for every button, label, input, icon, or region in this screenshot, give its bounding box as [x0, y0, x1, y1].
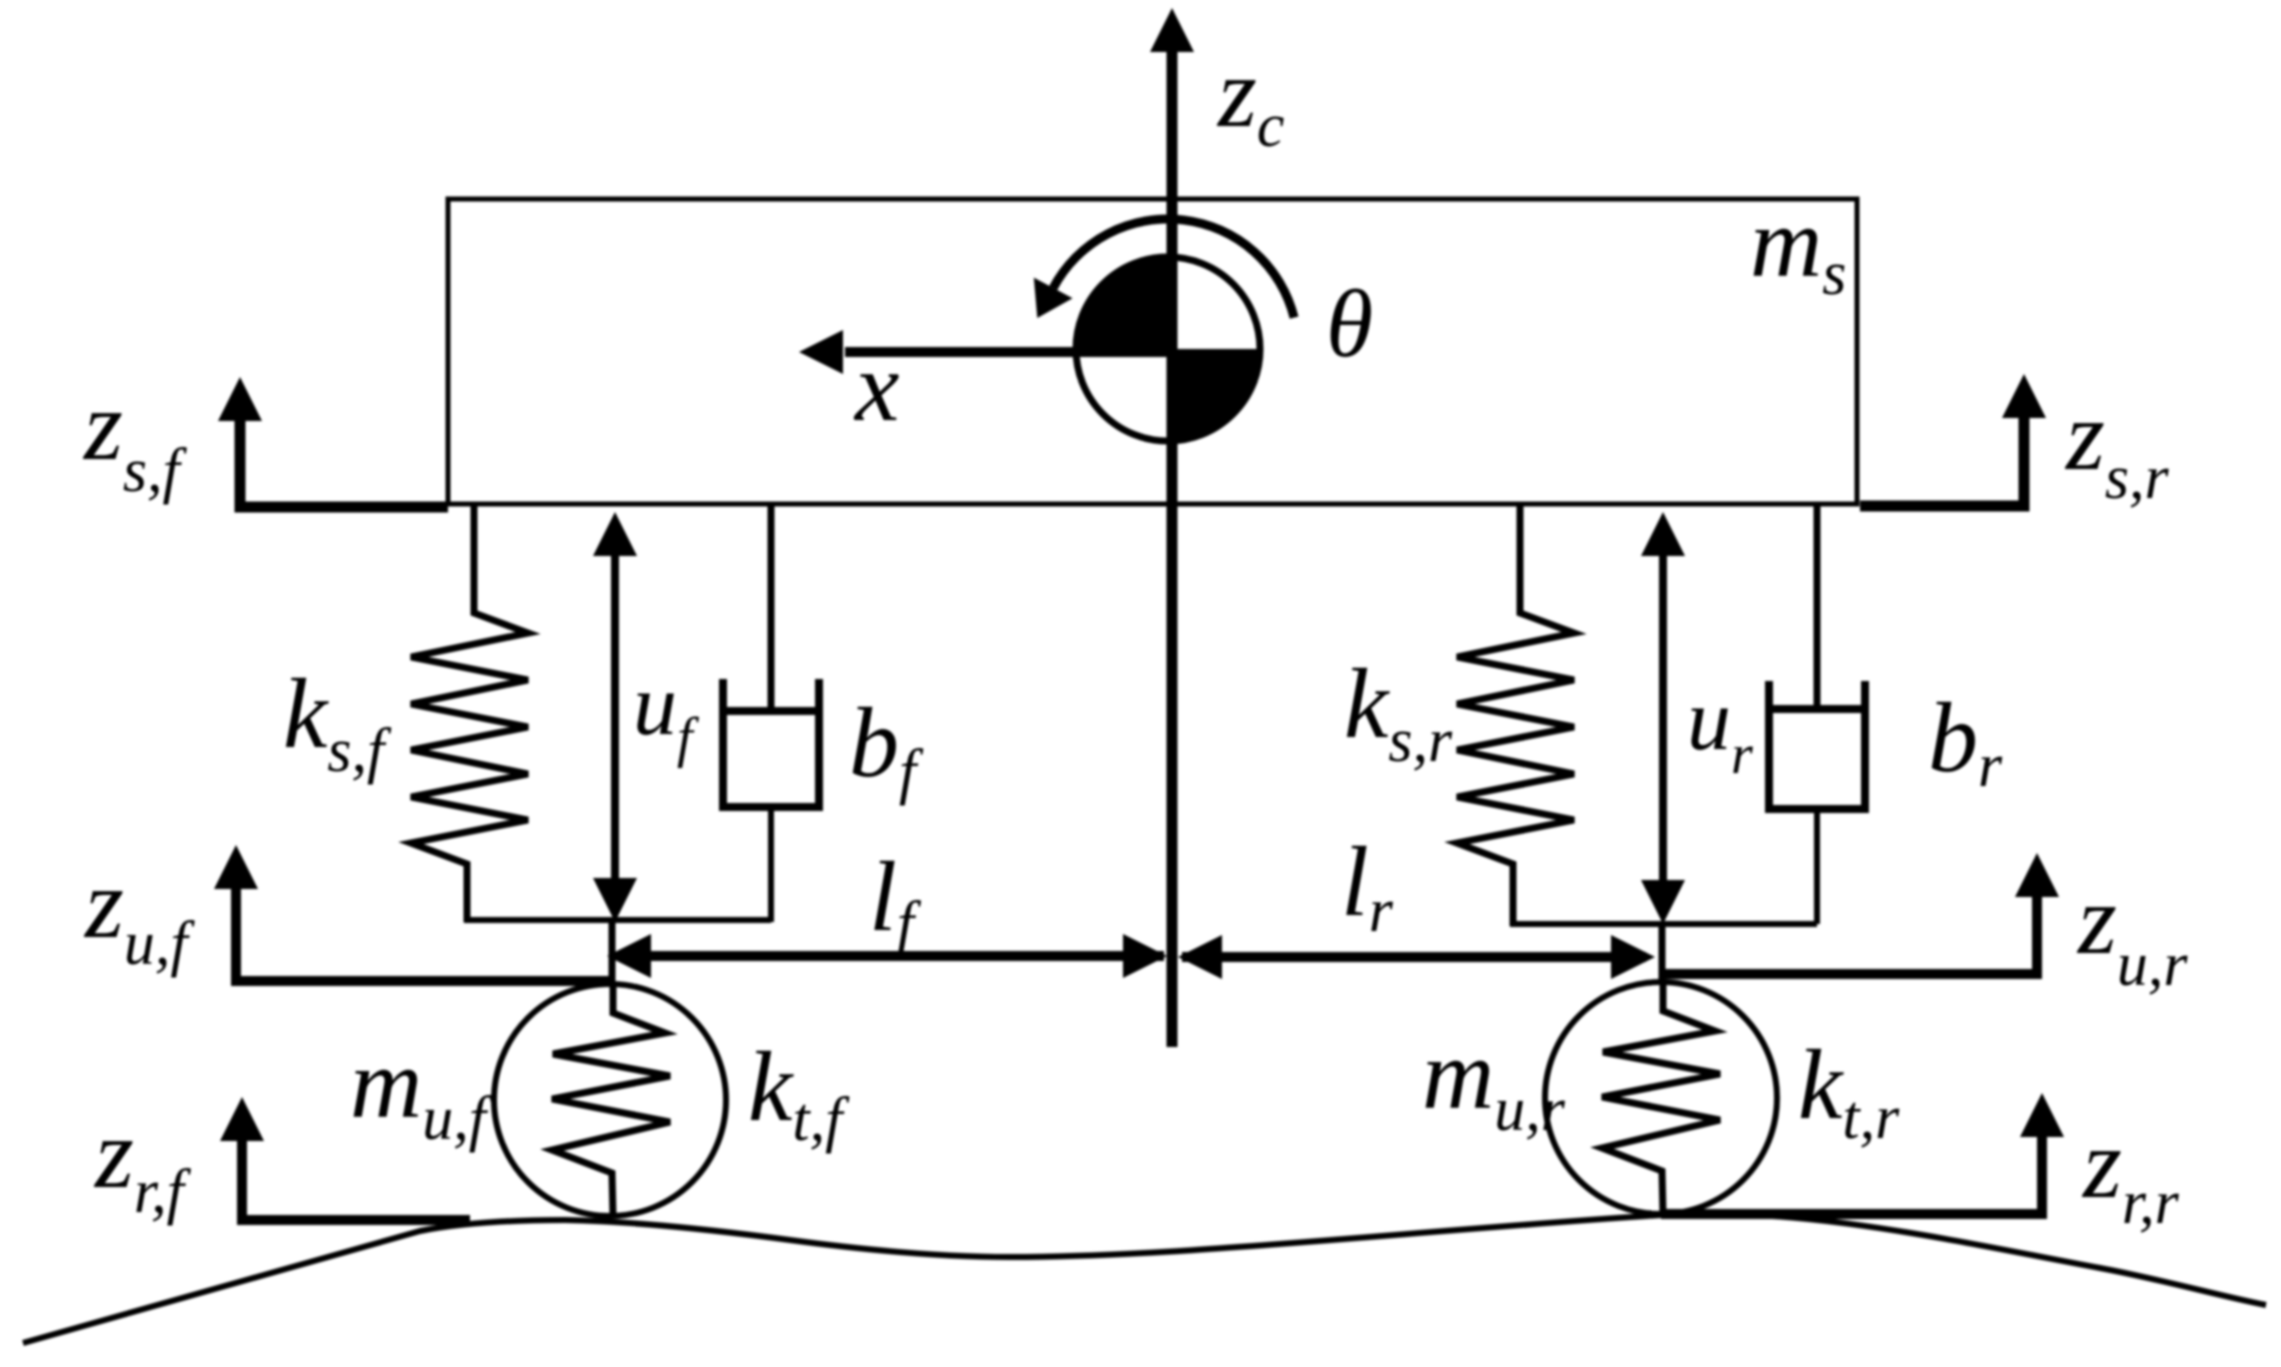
- x label: [853, 331, 899, 442]
- z_u,r label: [2076, 864, 2188, 999]
- svg-text:x: x: [853, 331, 899, 442]
- k_s,r label: [1344, 648, 1453, 775]
- sprung mass body m_s (rectangle): [448, 199, 1857, 504]
- rear spring k_s,r: [1457, 506, 1574, 926]
- θ label: [1326, 270, 1373, 377]
- z_r,f label: [93, 1098, 192, 1226]
- front damper b_f: [723, 506, 819, 922]
- svg-text:θ: θ: [1326, 270, 1373, 377]
- z_u,r arrow: [1661, 853, 2059, 974]
- pitch rotation arc θ: [1034, 219, 1294, 318]
- b_r label: [1928, 682, 2003, 800]
- k_t,r label: [1798, 1029, 1900, 1152]
- m_u,f label: [350, 1028, 494, 1153]
- z_s,r arrow: [1860, 374, 2046, 506]
- front wheel attach line: [609, 920, 616, 988]
- rear damper b_r: [1769, 506, 1865, 924]
- front unsprung mass m_u,f (wheel): [494, 984, 726, 1216]
- z_r,r arrow: [1661, 1093, 2064, 1214]
- z_c label: [1216, 37, 1284, 160]
- l_f label: [869, 841, 922, 958]
- l_f dimension arrow: [607, 934, 1167, 978]
- k_t,f label: [748, 1031, 850, 1154]
- k_s,f label: [283, 658, 392, 785]
- z_u,f label: [83, 848, 195, 978]
- center of gravity symbol: [1076, 257, 1260, 441]
- z_c axis arrow: [1150, 8, 1194, 1047]
- l_r label: [1341, 826, 1394, 945]
- rear tire spring k_t,r: [1602, 984, 1720, 1214]
- road profile: [23, 1214, 2266, 1343]
- front tire spring k_t,f: [552, 986, 670, 1216]
- z_u,f arrow: [214, 845, 612, 981]
- b_f label: [849, 687, 924, 806]
- u_r label: [1687, 672, 1753, 786]
- rear connector bar: [1510, 921, 1817, 927]
- rear wheel attach line: [1659, 924, 1666, 986]
- rear unsprung mass m_u,r (wheel): [1545, 982, 1777, 1214]
- z_r,f arrow: [220, 1097, 470, 1220]
- l_r dimension arrow: [1178, 935, 1655, 979]
- x axis arrow: [799, 330, 1168, 374]
- front connector bar: [464, 917, 771, 923]
- z_s,r label: [2064, 380, 2170, 512]
- m_u,r label: [1422, 1019, 1566, 1144]
- z_s,f label: [82, 370, 188, 505]
- rear actuator u_r (double arrow): [1641, 512, 1685, 924]
- front actuator u_f (double arrow): [593, 512, 637, 922]
- z_s,f arrow: [218, 377, 448, 507]
- u_f label: [633, 657, 700, 769]
- front spring k_s,f: [411, 506, 528, 922]
- z_r,r label: [2081, 1108, 2180, 1237]
- m_s label: [1750, 187, 1846, 308]
